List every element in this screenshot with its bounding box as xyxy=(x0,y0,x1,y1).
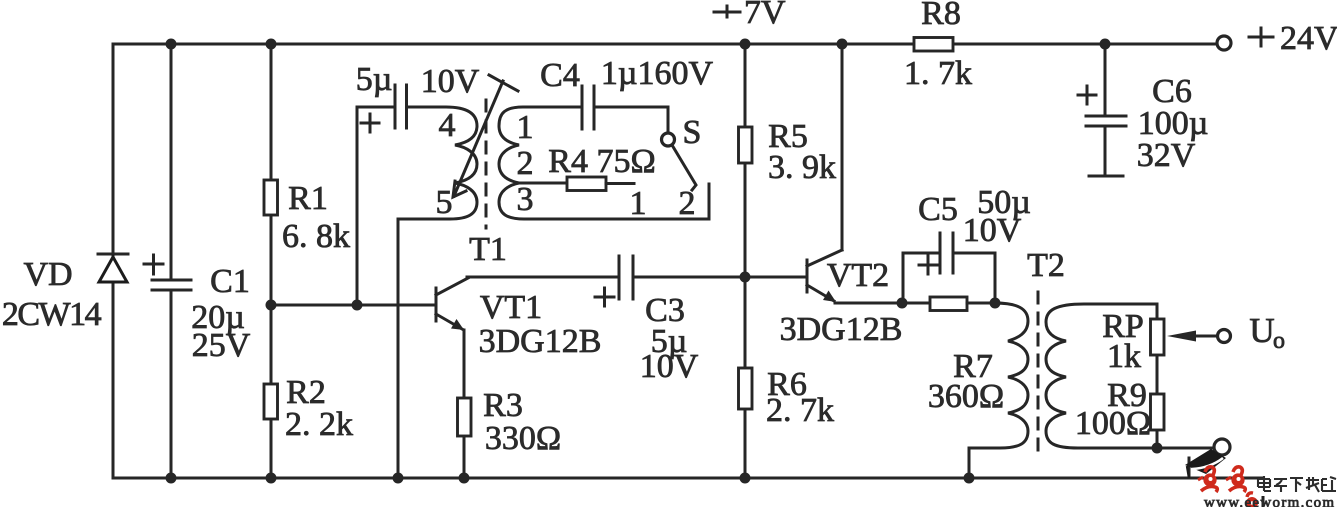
capacitor C6 bottom termination bar xyxy=(1089,175,1123,178)
capacitor C6 plus polarity xyxy=(1078,86,1096,104)
svg-text:5µ: 5µ xyxy=(356,61,393,98)
transformer T1 left winding (pins 4-5) with lead to ground xyxy=(398,107,477,478)
svg-text:o: o xyxy=(1273,328,1285,354)
capacitor C5 plus polarity xyxy=(919,256,937,274)
transformer T2 core dashed line xyxy=(1037,292,1040,458)
wire VT1 emitter to R3 xyxy=(463,330,466,478)
svg-text:2CW14: 2CW14 xyxy=(2,296,102,333)
svg-text:1: 1 xyxy=(517,109,534,146)
capacitor C6 plates xyxy=(1086,116,1126,126)
watermark black cap logo xyxy=(1185,449,1226,474)
svg-text:R4 75Ω: R4 75Ω xyxy=(548,143,655,180)
resistor R4 xyxy=(567,177,606,191)
capacitor C4 plates xyxy=(582,86,594,129)
transistor VT1 base bar xyxy=(435,288,438,321)
transistor VT2 collector lead xyxy=(807,250,842,266)
svg-text:2. 7k: 2. 7k xyxy=(766,392,834,429)
resistor R3 xyxy=(458,398,472,436)
wire 5u feedback cap branch left xyxy=(357,107,395,305)
svg-text:T1: T1 xyxy=(469,231,507,268)
transistor VT1 collector lead xyxy=(436,278,468,295)
svg-text:VT2: VT2 xyxy=(827,257,889,294)
transistor VT2 base bar xyxy=(806,260,809,292)
transistor VT2 emitter arrowhead xyxy=(823,291,836,303)
svg-text:1. 7k: 1. 7k xyxy=(904,55,972,92)
wire C6 branch xyxy=(1104,44,1107,174)
resistor R1 xyxy=(264,180,278,215)
wire VT2 collector to top rail xyxy=(841,44,844,250)
svg-text:7V: 7V xyxy=(744,0,786,31)
switch S pivot circle xyxy=(662,133,675,146)
svg-text:U: U xyxy=(1249,311,1274,350)
capacitor C3 plus polarity xyxy=(595,288,614,306)
svg-text:R1: R1 xyxy=(288,180,328,217)
svg-text:4: 4 xyxy=(439,107,456,144)
svg-text:www.eeworm.com: www.eeworm.com xyxy=(1204,495,1335,507)
svg-text:1µ160V: 1µ160V xyxy=(601,55,714,92)
transformer T1 tuning arrow head xyxy=(453,181,466,197)
transistor VT1 emitter arrowhead xyxy=(451,319,464,330)
diode VD (zener 2CW14) cathode bar xyxy=(98,253,128,256)
svg-text:VD: VD xyxy=(23,256,72,293)
potentiometer RP wiper wire xyxy=(1194,335,1218,338)
label +24V plus sign xyxy=(1249,28,1273,46)
label +7V plus sign xyxy=(714,6,740,17)
svg-text:C1: C1 xyxy=(210,263,250,300)
wire C4 to switch S xyxy=(594,107,668,132)
capacitor C1 plus polarity xyxy=(144,255,163,274)
junction dots xyxy=(166,39,177,50)
svg-text:3DG12B: 3DG12B xyxy=(479,323,602,360)
diode VD triangle xyxy=(99,257,127,282)
resistor R9 xyxy=(1151,394,1165,430)
watermark gray CJK text (stylized) xyxy=(1258,476,1336,492)
terminal +24V circle xyxy=(1217,36,1231,50)
wire C3 to R5/R6 node xyxy=(633,276,745,279)
svg-text:R3: R3 xyxy=(483,387,523,424)
wire left branch vertical (VD branch) xyxy=(112,44,115,478)
watermark red bug glyph 1 xyxy=(1198,467,1217,492)
watermark red bug glyph 2 xyxy=(1226,467,1245,492)
svg-text:S: S xyxy=(683,114,702,151)
wire R1/R2 divider column xyxy=(270,44,273,478)
transformer T2 secondary winding with leads xyxy=(1046,304,1214,448)
svg-text:360Ω: 360Ω xyxy=(928,378,1004,415)
wire R5/R6 column xyxy=(744,44,747,478)
svg-text:24V: 24V xyxy=(1280,20,1337,57)
svg-text:6. 8k: 6. 8k xyxy=(282,218,350,255)
resistor R6 xyxy=(739,368,753,409)
watermark red bug glyph 3 (cut at bottom) xyxy=(1246,493,1258,507)
svg-text:5: 5 xyxy=(436,184,453,221)
svg-text:10V: 10V xyxy=(963,212,1022,249)
capacitor 5u/10V plates xyxy=(395,85,407,128)
svg-text:VT1: VT1 xyxy=(480,289,542,326)
wire VT1 base row xyxy=(271,304,436,307)
transistor VT2 emitter lead xyxy=(807,285,834,301)
transformer T2 left winding from R7 node to ground xyxy=(969,303,1028,478)
wire T1 tap to R4 xyxy=(519,182,567,185)
wire ground rail stub to output terminal xyxy=(1188,458,1191,478)
wire VT1 collector row to C3 xyxy=(467,276,619,279)
wire capacitor C1 branch lower xyxy=(170,290,173,478)
capacitor C5 plates xyxy=(940,233,953,273)
wire R7 to T2 xyxy=(967,302,995,305)
terminal Uo circle xyxy=(1218,330,1231,343)
wire top supply rail xyxy=(113,43,1217,46)
wire VT2 emitter row xyxy=(835,302,930,305)
transformer T1 tuning arrow top crossbar xyxy=(489,75,518,91)
potentiometer RP wiper arrowhead xyxy=(1167,331,1196,342)
watermark vertical stray mark xyxy=(1262,496,1265,507)
wire R4 to switch contact 1 xyxy=(606,182,634,185)
wire bottom ground rail xyxy=(113,477,1262,480)
capacitor 5u plus polarity xyxy=(361,114,379,132)
wire C5 loop right xyxy=(953,253,995,303)
svg-text:10V: 10V xyxy=(640,348,699,385)
svg-text:R8: R8 xyxy=(921,0,961,32)
wire C5 loop left and top xyxy=(903,253,940,303)
svg-text:10V: 10V xyxy=(421,63,480,100)
resistor R5 xyxy=(739,127,753,163)
wire capacitor C1 branch upper xyxy=(170,44,173,280)
svg-text:25V: 25V xyxy=(192,327,251,364)
wire RP/R9 column xyxy=(1156,304,1159,448)
resistor R2 xyxy=(264,384,278,419)
capacitor C1 plates xyxy=(152,280,191,290)
resistor R8 on top rail xyxy=(914,38,953,52)
resistor R7 xyxy=(930,297,967,311)
svg-text:2: 2 xyxy=(679,185,696,222)
transformer T1 core dashed line xyxy=(485,100,488,228)
svg-text:32V: 32V xyxy=(1137,137,1196,174)
svg-text:2. 2k: 2. 2k xyxy=(285,406,353,443)
capacitor C3 plates xyxy=(619,256,633,299)
switch S blade xyxy=(672,145,696,190)
svg-text:T2: T2 xyxy=(1027,247,1065,284)
svg-text:1: 1 xyxy=(630,185,647,222)
transistor VT1 emitter lead xyxy=(436,314,462,329)
terminal output circle bottom right xyxy=(1214,439,1230,455)
svg-text:330Ω: 330Ω xyxy=(485,420,561,457)
svg-text:C4: C4 xyxy=(540,57,580,94)
wire node to VT2 base xyxy=(745,276,807,279)
svg-text:2: 2 xyxy=(517,145,534,182)
transformer T1 right winding (coils 1-2-3) with bottom lead to switch contact 2 xyxy=(499,107,709,219)
svg-text:C5: C5 xyxy=(918,191,958,228)
svg-text:3. 9k: 3. 9k xyxy=(768,149,836,186)
svg-text:3: 3 xyxy=(517,181,534,218)
svg-text:3DG12B: 3DG12B xyxy=(780,311,903,348)
transformer T1 tuning arrow shaft xyxy=(454,81,503,196)
svg-text:100Ω: 100Ω xyxy=(1075,405,1151,442)
svg-text:1k: 1k xyxy=(1107,338,1141,375)
potentiometer RP xyxy=(1151,319,1165,355)
